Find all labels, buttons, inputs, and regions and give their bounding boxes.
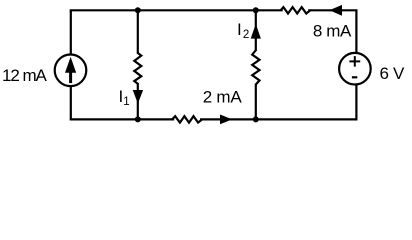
node junction dot bottom-left (I1 branch / bottom wire) xyxy=(135,116,141,122)
label 12 mA xyxy=(2,66,48,85)
wire: I1 branch upper segment xyxy=(137,10,139,54)
resistor R3 (I2 branch, vertical zigzag) xyxy=(252,50,259,84)
wire: I2 branch lower segment xyxy=(255,84,257,120)
resistor R2 (I1 branch, vertical zigzag) xyxy=(134,53,141,84)
arrowhead I2 (pointing up) xyxy=(251,24,261,39)
wire: bottom run left segment (to resistor R4) xyxy=(71,118,173,120)
label I2 xyxy=(237,20,249,41)
node junction dot top-left (I1 branch / top wire) xyxy=(135,7,141,13)
voltage source plus sign xyxy=(349,56,360,67)
wire: right vertical upper (top wire to voltage source) xyxy=(355,10,357,53)
resistor R1 (8 mA branch, horizontal zigzag) xyxy=(281,7,311,13)
wire: I2 branch upper segment xyxy=(255,10,257,51)
wire: top run right segment (resistor R1 to right corner) xyxy=(309,9,356,11)
arrowhead 2 mA (pointing right on bottom wire) xyxy=(220,115,232,125)
wire: left vertical upper (source to top) xyxy=(70,10,72,55)
wire: I1 branch lower segment xyxy=(137,83,139,119)
current source arrow (up) xyxy=(65,57,76,83)
arrowhead I1 (pointing down) xyxy=(133,90,143,104)
voltage source V1 (6 V) circle xyxy=(339,53,371,85)
svg-text:8 mA: 8 mA xyxy=(313,21,352,40)
label 2 mA xyxy=(203,88,243,107)
arrowhead 8 mA (pointing left on top wire) xyxy=(329,5,342,16)
label 8 mA xyxy=(313,21,352,40)
node junction dot top-middle (I2 branch / top wire) xyxy=(253,7,259,13)
wire: left vertical lower (source to bottom) xyxy=(70,86,72,119)
resistor R4 (2 mA branch, horizontal zigzag) xyxy=(172,116,202,122)
node junction dot bottom-middle (I2 branch / bottom wire) xyxy=(253,116,259,122)
svg-text:2 mA: 2 mA xyxy=(203,88,243,107)
label 6 V xyxy=(380,64,405,83)
voltage source minus sign xyxy=(352,76,357,78)
wire: top run left segment (node A to resistor R1) xyxy=(71,9,282,11)
label I1 xyxy=(119,87,130,108)
current source I (12 mA) circle xyxy=(55,55,87,87)
svg-text:6 V: 6 V xyxy=(380,64,405,83)
wire: bottom run right segment (resistor R4 to right corner) xyxy=(201,118,356,120)
wire: right vertical lower (voltage source to bottom wire) xyxy=(355,85,357,120)
svg-text:12 mA: 12 mA xyxy=(2,66,48,85)
